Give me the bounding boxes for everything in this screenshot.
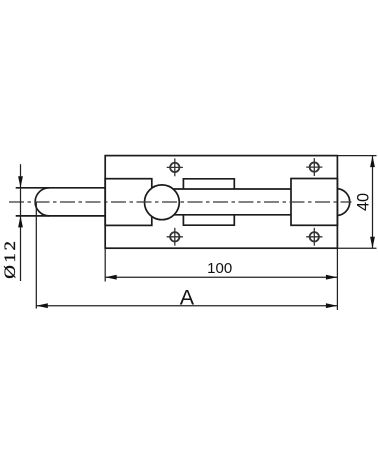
100 arrow right bbox=[326, 275, 338, 280]
hole top-right circle bbox=[310, 162, 319, 171]
bolt rod right section top edge bbox=[173, 188, 291, 190]
hole top-right cross bbox=[306, 166, 322, 168]
100 arrow left bbox=[105, 275, 117, 280]
centerline bbox=[9, 201, 352, 203]
hole bottom-left cross bbox=[167, 236, 183, 238]
svg-text:Ø12: Ø12 bbox=[0, 239, 18, 279]
100 dimension line bbox=[105, 276, 337, 278]
upper slot tab bbox=[183, 179, 234, 189]
svg-text:40: 40 bbox=[355, 193, 373, 211]
100 extension line left bbox=[104, 248, 106, 281]
A arrow left bbox=[36, 303, 48, 308]
dia12 dimension line bbox=[20, 164, 22, 281]
bolt rod rounded left end bbox=[35, 188, 49, 216]
hole top-left cross bbox=[167, 166, 183, 168]
40 arrow down bbox=[370, 237, 375, 249]
svg-text:100: 100 bbox=[207, 260, 232, 277]
svg-text:A: A bbox=[180, 285, 195, 309]
A extension line left bbox=[35, 202, 37, 309]
hole bottom-right circle bbox=[310, 232, 319, 241]
bolt rod left section bottom edge bbox=[16, 215, 106, 217]
40 arrow up bbox=[370, 156, 375, 168]
40 extension line top bbox=[337, 155, 376, 157]
bolt rod rounded right tip bbox=[337, 189, 349, 216]
hole top-left circle bbox=[170, 163, 179, 172]
40 extension line bottom bbox=[337, 247, 376, 249]
left guide box bbox=[105, 179, 152, 226]
right guide box bbox=[291, 179, 337, 226]
plate bbox=[105, 156, 337, 249]
lower slot tab bbox=[183, 215, 234, 225]
100/A extension line right bbox=[336, 248, 338, 310]
hole bottom-left circle bbox=[170, 232, 179, 241]
knob circle bbox=[145, 185, 180, 220]
40 dimension line bbox=[372, 156, 374, 249]
bolt rod right section bottom edge bbox=[173, 214, 291, 216]
hole bottom-right cross bbox=[306, 236, 322, 238]
A arrow right bbox=[326, 303, 338, 308]
bolt rod left section top edge bbox=[16, 187, 106, 189]
dia12 arrow up bbox=[18, 216, 23, 228]
dia12 arrow down bbox=[18, 176, 23, 188]
A dimension line bbox=[36, 305, 337, 307]
